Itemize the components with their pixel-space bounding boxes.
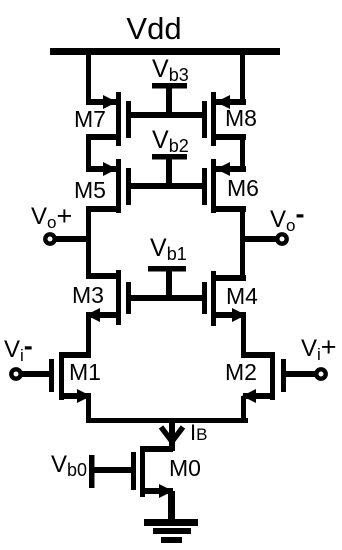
bias net Vb3 gate connection [131,83,202,118]
svg-text:M7: M7 [74,106,106,132]
svg-text:M3: M3 [72,282,104,308]
wire: Vdd rail to M8 drain [240,53,245,105]
wire: M5 source through node Vo+ to M3 drain [86,209,91,279]
wire: tail node joining line [86,418,248,423]
transistor M4 [202,271,246,326]
bias net Vb1 gate connection [131,266,202,301]
transistor M8 [202,92,246,146]
transistor M0 [94,446,173,498]
svg-text:Vdd: Vdd [126,11,181,46]
node Vo- terminal [244,234,287,243]
svg-text:M0: M0 [169,455,201,481]
svg-text:M5: M5 [74,177,106,203]
wire: M7 source to M5 drain [86,137,91,172]
ground [144,519,198,543]
power rail Vdd [50,48,280,55]
svg-text:M2: M2 [225,359,257,385]
wire: M1 source down to tail node [86,396,91,423]
transistor M3 [86,270,131,325]
svg-text:M4: M4 [226,283,258,309]
transistor M6 [202,159,246,213]
wire: M0 source to ground [168,491,175,521]
transistor M2 [242,352,286,403]
node Vi+ terminal [286,369,326,378]
wire: M3 source to M1 drain [86,315,91,358]
wire: M8 source to M6 drain [240,137,245,172]
node Vb0 terminal bar [89,455,95,488]
svg-text:M8: M8 [225,105,257,131]
wire: M4 source to M2 drain [241,315,246,358]
node Vi- terminal [11,369,49,378]
wire: M2 source down to tail node [241,396,246,423]
transistor M7 [86,92,131,146]
bias net Vb2 gate connection [131,154,202,189]
wire: Vdd rail to M7 drain [86,53,91,105]
svg-text:M1: M1 [69,359,101,385]
node Vo+ terminal [45,234,88,243]
svg-text:Vi-: Vi- [4,331,33,365]
current arrow IB [161,421,183,451]
transistor M5 [86,159,131,213]
wire: M6 source through node Vo- to M4 drain [240,209,245,279]
transistor M1 [49,352,91,403]
svg-text:M6: M6 [227,175,259,201]
